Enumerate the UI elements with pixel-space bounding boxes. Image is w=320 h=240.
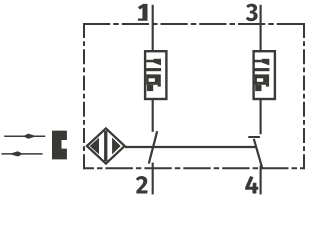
proximity sensor symbol: right triangle bbox=[112, 138, 121, 155]
enclosure boundary right (dash-dot) bbox=[303, 23, 305, 169]
terminal 3 label bbox=[246, 4, 258, 22]
enclosure boundary top (dash-dot) bbox=[83, 23, 304, 25]
approach arrow (points right) bbox=[4, 135, 45, 137]
box R1 label glyph R (rotated letter, bottom) bbox=[146, 74, 160, 91]
proximity sensor symbol: diamond outline bbox=[87, 128, 125, 163]
wire box R1 to contact 1 fixed end bbox=[152, 99, 154, 132]
contact 2 movable blade (NC) bbox=[254, 139, 262, 169]
wire box R2 to contact 2 fixed end bbox=[260, 99, 262, 134]
actuator target block (C-shape) bbox=[52, 131, 67, 160]
enclosure boundary left (dash-dot) bbox=[83, 23, 85, 169]
component box R2 bbox=[254, 51, 275, 99]
actuation link line from sensor to contacts bbox=[125, 146, 256, 148]
wire terminal 1 to box R1 bbox=[152, 5, 154, 51]
terminal 2 label bbox=[136, 176, 148, 194]
wire contact 2 to terminal 4 bbox=[260, 166, 262, 195]
terminal 4 label bbox=[245, 176, 258, 194]
contact 2 fixed seat tick (NC) bbox=[248, 136, 260, 138]
box R2 label glyph Z (rotated letter, top) bbox=[254, 59, 269, 71]
component box R1 bbox=[145, 51, 166, 99]
proximity sensor symbol: center bar bbox=[104, 131, 107, 162]
terminal 1 label bbox=[138, 4, 148, 21]
proximity sensor symbol: left triangle bbox=[90, 138, 99, 155]
box R1 label glyph Z (rotated letter, top) bbox=[146, 59, 161, 71]
box R2 label glyph R (rotated letter, bottom) bbox=[255, 74, 269, 91]
wire terminal 3 to box R2 bbox=[260, 5, 262, 51]
contact 1 movable blade (NO) bbox=[149, 131, 157, 163]
retract arrow (points left) bbox=[1, 153, 42, 155]
wire contact 1 to terminal 2 bbox=[152, 163, 154, 195]
enclosure boundary bottom (dash-dot) bbox=[83, 167, 305, 169]
